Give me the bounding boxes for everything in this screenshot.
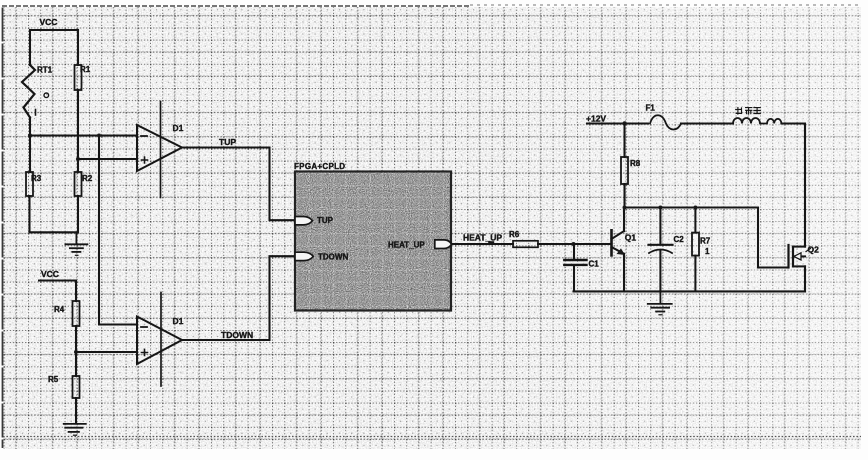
svg-text:D1: D1 bbox=[173, 316, 184, 326]
wire VCC top rail bbox=[30, 30, 78, 65]
wire R5 to ground bbox=[75, 398, 77, 423]
resistor R2 bbox=[75, 172, 93, 196]
wire R6 to Q1 base bbox=[538, 243, 610, 245]
wire node A to R3 bbox=[29, 136, 31, 173]
svg-text:RT1: RT1 bbox=[37, 66, 53, 75]
svg-text:VCC: VCC bbox=[41, 269, 59, 279]
svg-text:HEAT_UP: HEAT_UP bbox=[463, 233, 502, 243]
svg-text:TDOWN: TDOWN bbox=[318, 253, 348, 262]
wire node A to D1 inverting input bbox=[30, 134, 137, 136]
op-amp D1 upper bbox=[137, 123, 184, 171]
svg-text:+12V: +12V bbox=[586, 114, 606, 124]
ground (lower left) bbox=[64, 424, 86, 435]
svg-text:TDOWN: TDOWN bbox=[221, 330, 253, 340]
wire divider node to R2 bbox=[77, 159, 79, 172]
node collector junction bbox=[623, 206, 627, 210]
svg-text:VCC: VCC bbox=[40, 17, 58, 27]
right rail to Q2 drain bbox=[804, 124, 806, 247]
heater coil bbox=[733, 108, 781, 124]
ground (upper left) bbox=[65, 232, 87, 255]
wire collector node to gate feeder bbox=[625, 206, 759, 208]
wire node B to R5 bbox=[75, 352, 77, 376]
resistor R1 bbox=[75, 65, 91, 90]
junction R7 bbox=[693, 206, 697, 210]
wire +12V to R8 bbox=[623, 124, 625, 158]
power line lower op-amp bbox=[160, 293, 162, 387]
pin TDOWN bbox=[295, 252, 348, 261]
resistor R7 bbox=[692, 208, 711, 292]
wire gate feeder bbox=[758, 208, 788, 268]
wire Q1 collector bbox=[623, 208, 625, 232]
heater label (CJK glyph blocks) bbox=[736, 108, 761, 114]
junction C1 tap bbox=[572, 242, 576, 246]
svg-text:C1: C1 bbox=[589, 260, 600, 269]
ground (right) bbox=[648, 291, 672, 314]
resistor R5 bbox=[48, 375, 80, 398]
svg-text:TUP: TUP bbox=[219, 137, 236, 147]
pin HEAT_UP output bbox=[388, 240, 452, 250]
wire R8 to collector node bbox=[623, 184, 625, 208]
resistor R3 bbox=[26, 172, 42, 196]
wire sense line to lower comparator bbox=[99, 136, 137, 325]
pin TUP bbox=[295, 216, 334, 225]
wire HEAT_UP net bbox=[452, 233, 514, 245]
wire R3 to ground rail bbox=[28, 196, 30, 232]
svg-text:TUP: TUP bbox=[317, 216, 334, 225]
wire VCC lower rail bbox=[39, 281, 76, 302]
node B junction bbox=[74, 350, 78, 354]
wire Q2 source to rail bbox=[804, 266, 806, 291]
svg-text:FPGA+CPLD: FPGA+CPLD bbox=[294, 162, 345, 171]
scan border top bbox=[2, 5, 470, 7]
wire Q1 emitter to ground rail bbox=[623, 254, 625, 292]
ground rail left bbox=[30, 231, 79, 233]
svg-text:D1: D1 bbox=[173, 123, 184, 133]
wire heater to right rail bbox=[781, 122, 805, 124]
svg-text:F1: F1 bbox=[646, 104, 656, 113]
wire node B to D1 lower noninverting input bbox=[76, 351, 137, 353]
wire divider node to D1 noninverting input bbox=[78, 158, 137, 160]
capacitor C1 bbox=[564, 244, 599, 291]
svg-text:R6: R6 bbox=[509, 230, 520, 239]
wire RT1 to node A bbox=[29, 118, 31, 136]
resistor R4 bbox=[54, 301, 80, 326]
node R1/R2 bbox=[76, 157, 80, 161]
resistor R8 bbox=[621, 157, 641, 184]
wire TDOWN bbox=[182, 256, 295, 340]
svg-text:C2: C2 bbox=[674, 235, 685, 244]
junction sense line bbox=[97, 134, 101, 138]
node A junction bbox=[28, 134, 32, 138]
+12V rail bbox=[586, 114, 648, 124]
wire R4 to node B bbox=[75, 326, 77, 352]
MOSFET Q2 bbox=[789, 245, 820, 268]
resistor R6 bbox=[509, 230, 538, 247]
wire F1 to heater bbox=[681, 122, 733, 124]
wire R2 to ground rail bbox=[77, 196, 79, 232]
svg-text:1: 1 bbox=[705, 247, 710, 256]
junction +12V / R8 bbox=[622, 121, 626, 125]
power line upper op-amp bbox=[160, 102, 162, 198]
op-amp D1 lower bbox=[137, 316, 184, 364]
FPGA+CPLD block U1 bbox=[294, 162, 451, 311]
wire R1 to divider node bbox=[77, 90, 79, 159]
thermistor RT1 bbox=[22, 65, 53, 118]
transistor Q1 bbox=[612, 230, 637, 255]
ground rail bottom right bbox=[574, 290, 806, 292]
junction C2 bbox=[658, 206, 662, 210]
svg-text:R5: R5 bbox=[48, 375, 59, 384]
node VCC lower bbox=[41, 269, 59, 279]
svg-text:R3: R3 bbox=[31, 174, 42, 183]
svg-text:R4: R4 bbox=[54, 305, 65, 314]
svg-text:R8: R8 bbox=[630, 159, 641, 168]
capacitor C2 bbox=[649, 208, 685, 292]
scan border bottom tick row bbox=[3, 436, 861, 438]
svg-text:R7: R7 bbox=[700, 237, 711, 246]
svg-text:HEAT_UP: HEAT_UP bbox=[388, 241, 425, 250]
svg-text:R1: R1 bbox=[80, 65, 91, 74]
svg-text:Q2: Q2 bbox=[808, 245, 820, 255]
svg-text:Q1: Q1 bbox=[625, 233, 637, 243]
node VCC top bbox=[40, 17, 58, 27]
fuse F1 bbox=[646, 104, 682, 130]
wire TUP bbox=[182, 137, 295, 220]
scan border left bbox=[2, 8, 4, 449]
svg-text:R2: R2 bbox=[82, 174, 93, 183]
